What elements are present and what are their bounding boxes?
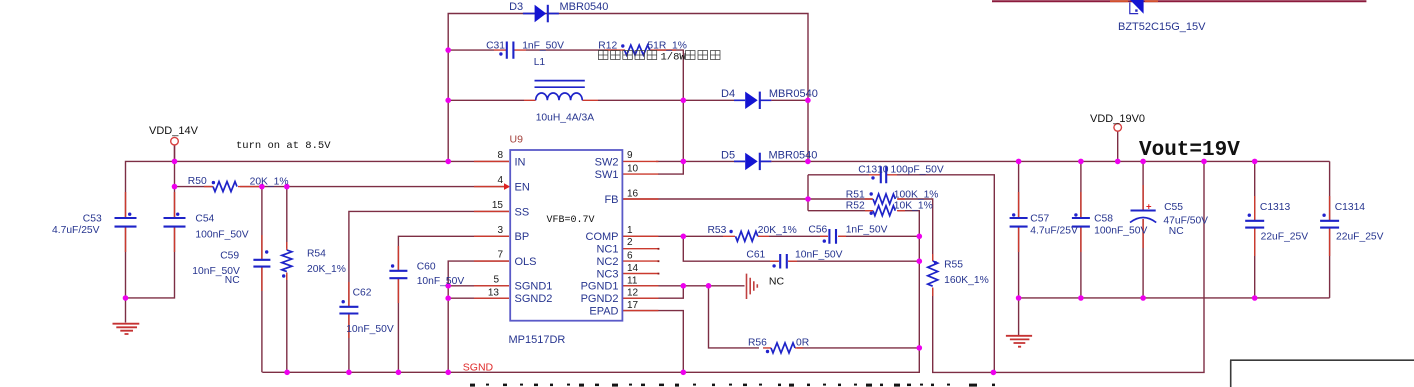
svg-text:turn on at 8.5V: turn on at 8.5V <box>236 140 331 152</box>
resistor R55 160K_1% vertical <box>928 261 938 286</box>
svg-text:NC1: NC1 <box>596 244 618 256</box>
svg-text:160K_1%: 160K_1% <box>944 275 989 286</box>
wire EN row R50 to IC <box>175 186 213 188</box>
svg-text:R56: R56 <box>748 337 767 348</box>
wire C58 vertical <box>1080 161 1082 298</box>
svg-text:U9: U9 <box>510 134 524 146</box>
svg-text:SW1: SW1 <box>595 169 619 181</box>
pin stubs D4 D5 D3 <box>734 100 772 161</box>
wire R56 right link <box>797 347 919 349</box>
svg-text:NC3: NC3 <box>596 268 618 280</box>
pin stubs C56 <box>820 235 846 237</box>
svg-text:16: 16 <box>627 189 639 200</box>
capacitor C1314 plates <box>1320 221 1339 228</box>
svg-text:20K_1%: 20K_1% <box>758 225 797 236</box>
svg-text:NC: NC <box>769 275 785 287</box>
pin stubs IC right <box>623 161 658 310</box>
resistor R53 20K_1% <box>736 231 758 241</box>
capacitor C55 electrolytic top plate <box>1131 209 1156 211</box>
capacitor C61 plates vertical <box>780 254 787 269</box>
wire C55 vertical <box>1142 161 1144 298</box>
annotation CJK suggest resistor above 1/8W <box>598 51 656 60</box>
pin stubs R50 <box>204 186 261 188</box>
svg-text:OLS: OLS <box>515 256 537 268</box>
svg-text:MBR0540: MBR0540 <box>560 1 609 13</box>
wire PGND to R56 vertical <box>709 286 760 348</box>
svg-text:SGND1: SGND1 <box>515 281 553 293</box>
resistor R56 0R <box>771 343 795 353</box>
svg-text:SS: SS <box>515 206 530 218</box>
svg-text:C56: C56 <box>808 224 827 235</box>
svg-text:PGND1: PGND1 <box>581 281 619 293</box>
wire top right crimson line <box>992 0 1366 2</box>
wire L1 row <box>448 99 524 101</box>
svg-text:C62: C62 <box>353 287 372 298</box>
wire VDD_14V stem <box>174 145 176 161</box>
svg-text:1: 1 <box>627 225 633 236</box>
svg-text:3: 3 <box>497 225 503 236</box>
labels: diodes top <box>509 1 1206 162</box>
svg-text:MBR0540: MBR0540 <box>769 88 818 100</box>
svg-text:14: 14 <box>627 263 639 274</box>
svg-text:15: 15 <box>492 200 504 211</box>
svg-text:10nF_50V: 10nF_50V <box>346 324 394 335</box>
svg-text:7: 7 <box>497 250 503 261</box>
svg-text:D5: D5 <box>721 150 735 162</box>
capacitor C1313 plates <box>1245 221 1264 228</box>
wire OLS down to SGND pins vertical <box>448 261 509 372</box>
svg-text:R52: R52 <box>846 201 865 212</box>
svg-text:10: 10 <box>627 164 639 175</box>
wire C57 vertical <box>1018 161 1020 335</box>
svg-text:NC: NC <box>225 275 240 286</box>
svg-text:EPAD: EPAD <box>589 306 618 318</box>
svg-text:R51: R51 <box>846 190 865 201</box>
capacitor C56 plates vertical <box>829 229 836 244</box>
svg-text:C1310: C1310 <box>858 164 889 175</box>
svg-text:SGND2: SGND2 <box>515 293 553 305</box>
svg-text:EN: EN <box>515 182 530 194</box>
svg-text:R12: R12 <box>598 40 617 51</box>
wire FB row to divider <box>623 198 808 200</box>
svg-text:10K_1%: 10K_1% <box>894 201 933 212</box>
capacitor C53 plates <box>115 218 137 227</box>
capacitor C1310 plates vertical <box>881 166 886 183</box>
svg-text:C60: C60 <box>417 262 436 273</box>
wire top D3 net with left vertical and right vertical to Vout <box>448 14 808 162</box>
diode D4 MBR0540 <box>734 92 772 109</box>
inductor L1 core lines <box>535 81 585 88</box>
svg-text:20K_1%: 20K_1% <box>250 176 289 187</box>
pin stubs C60 <box>397 246 399 303</box>
wire C1314 vertical right edge <box>1329 161 1331 298</box>
diode D3 MBR0540 <box>523 5 559 23</box>
capacitor C59 plates <box>253 260 270 267</box>
svg-text:SW2: SW2 <box>595 156 619 168</box>
pin stubs R51 R52 <box>865 199 905 211</box>
capacitor C62 plates <box>339 307 358 314</box>
svg-text:10uH_4A/3A: 10uH_4A/3A <box>536 113 595 124</box>
wire PGND1 row to NC <box>623 285 745 287</box>
svg-text:1nF_50V: 1nF_50V <box>522 40 564 51</box>
svg-text:C53: C53 <box>83 214 102 225</box>
wire SS rail and C62 vertical <box>349 211 509 372</box>
wire SGND2 stub link <box>448 297 509 299</box>
svg-text:C61: C61 <box>746 249 765 260</box>
bottom cut-off bold CJK text row <box>470 384 995 387</box>
capacitor C55 electrolytic bottom arc <box>1130 218 1156 223</box>
svg-text:R55: R55 <box>944 259 963 270</box>
resistor R54 20K_1% vertical <box>282 250 292 272</box>
svg-text:VDD_14V: VDD_14V <box>149 125 199 137</box>
svg-text:22uF_25V: 22uF_25V <box>1261 231 1309 242</box>
wire R52 row down to C56 node <box>808 211 919 237</box>
IC U9 MP1517DR body <box>510 150 622 321</box>
IC pin numbers right <box>627 150 639 311</box>
svg-text:PGND2: PGND2 <box>581 293 619 305</box>
wire R51 row to R55 <box>808 199 933 261</box>
svg-text:R50: R50 <box>188 176 207 187</box>
svg-text:VFB=0.7V: VFB=0.7V <box>547 215 595 226</box>
svg-text:8: 8 <box>497 150 503 161</box>
wire D5/SW2 row <box>656 160 734 162</box>
pin stubs L1 <box>524 99 598 101</box>
pin-1 marker dots blue <box>128 44 1326 353</box>
capacitor C31 plates vertical <box>507 42 514 59</box>
wire VDD_19V0 stem <box>1117 131 1119 161</box>
svg-text:22uF_25V: 22uF_25V <box>1336 231 1384 242</box>
pin stubs C59 <box>261 235 263 291</box>
svg-text:4: 4 <box>497 175 503 186</box>
pin end markers NC pins <box>658 248 660 250</box>
pin stubs C53 C54 <box>126 192 175 252</box>
IC pin names left <box>515 156 553 305</box>
pin stubs IC left <box>474 161 509 298</box>
pin stubs right caps <box>1019 185 1330 256</box>
wire Vout bus <box>808 160 1330 162</box>
svg-text:100nF_50V: 100nF_50V <box>195 229 248 240</box>
power port VDD_14V <box>171 137 179 145</box>
power port VDD_19V0 <box>1114 124 1122 132</box>
wire C1310 row <box>808 175 994 373</box>
wire COMP row <box>623 235 683 237</box>
svg-text:D3: D3 <box>509 1 523 13</box>
wire C54 vertical with bottom jog to ground node <box>126 145 175 298</box>
svg-text:COMP: COMP <box>586 231 619 243</box>
svg-text:2: 2 <box>627 237 633 248</box>
svg-text:51R_1%: 51R_1% <box>647 40 687 51</box>
svg-text:MBR0540: MBR0540 <box>769 150 818 162</box>
svg-text:C31: C31 <box>486 40 505 51</box>
svg-text:0R: 0R <box>796 337 809 348</box>
svg-text:C57: C57 <box>1030 214 1049 225</box>
pin EN arrow <box>504 183 510 190</box>
svg-text:D4: D4 <box>721 88 735 100</box>
svg-text:C55: C55 <box>1164 202 1183 213</box>
svg-text:12: 12 <box>627 288 639 299</box>
svg-text:100pF_50V: 100pF_50V <box>891 164 944 175</box>
svg-text:MP1517DR: MP1517DR <box>509 334 566 346</box>
svg-text:10nF_50V: 10nF_50V <box>417 276 465 287</box>
svg-text:BP: BP <box>515 231 530 243</box>
wire PGND2 corner <box>623 286 683 298</box>
svg-text:IN: IN <box>515 156 526 168</box>
svg-text:1nF_50V: 1nF_50V <box>846 224 888 235</box>
resistor R12 51R_1% <box>625 45 650 55</box>
wire R53/C56 row <box>683 235 919 237</box>
svg-text:C59: C59 <box>220 251 239 262</box>
svg-text:BZT52C15G_15V: BZT52C15G_15V <box>1118 21 1206 33</box>
svg-text:9: 9 <box>627 150 633 161</box>
pin stubs C1310 <box>869 174 897 176</box>
wire C1313 vertical <box>1254 161 1256 298</box>
wire R54 vertical <box>286 187 288 373</box>
zener diode BZT52C15G_15V cut at top <box>1110 0 1158 14</box>
IC pin numbers left <box>488 150 504 299</box>
svg-text:VDD_19V0: VDD_19V0 <box>1090 113 1145 125</box>
frame black box bottom right <box>1230 360 1414 387</box>
capacitor C60 plates <box>389 271 407 278</box>
ground symbol right cap bank <box>1006 336 1032 347</box>
wire feedback box left vertical <box>807 175 809 211</box>
wire C31/R12 snubber row <box>448 49 494 51</box>
svg-text:C1314: C1314 <box>1335 202 1366 213</box>
pin stubs R54 <box>286 242 288 280</box>
svg-text:11: 11 <box>627 275 638 286</box>
svg-text:47uF/50V: 47uF/50V <box>1163 216 1208 227</box>
svg-text:10nF_50V: 10nF_50V <box>795 249 843 260</box>
wire BP rail and C60 vertical <box>398 236 509 372</box>
pin stubs C31 <box>494 49 526 51</box>
pin stubs R55 <box>932 254 934 296</box>
svg-text:4.7uF/25V: 4.7uF/25V <box>1030 225 1078 236</box>
svg-text:100K_1%: 100K_1% <box>894 190 939 201</box>
pin stubs R12 <box>605 49 676 51</box>
svg-text:FB: FB <box>604 194 618 206</box>
svg-text:SGND: SGND <box>463 361 494 373</box>
wire C59 vertical <box>261 187 263 373</box>
node junction dots <box>123 47 1258 375</box>
svg-text:5: 5 <box>493 274 499 285</box>
wire SGND1 stub link <box>448 285 509 287</box>
svg-text:L1: L1 <box>534 57 546 68</box>
pin stubs C61 <box>770 260 797 262</box>
svg-text:+: + <box>1146 202 1152 213</box>
svg-text:17: 17 <box>627 300 639 311</box>
inductor L1 coil <box>536 93 583 100</box>
pin stubs C62 <box>348 282 350 338</box>
capacitor C58 plates <box>1072 218 1090 227</box>
svg-text:6: 6 <box>627 251 633 262</box>
ground symbol left <box>113 324 140 334</box>
resistor R51 100K_1% <box>873 194 895 204</box>
svg-text:C58: C58 <box>1094 214 1113 225</box>
capacitor C57 plates <box>1010 218 1028 227</box>
wire IN rail from C53 to IC <box>126 161 510 322</box>
resistor R50 20K_1% <box>213 182 237 192</box>
wire right cap bank bottom bus <box>1019 297 1330 299</box>
wire C61 row <box>683 236 919 261</box>
svg-text:4.7uF/25V: 4.7uF/25V <box>52 225 100 236</box>
svg-text:C54: C54 <box>195 214 214 225</box>
svg-text:C1313: C1313 <box>1260 202 1291 213</box>
pin stubs R53 <box>723 235 769 237</box>
svg-text:R53: R53 <box>708 225 727 236</box>
svg-text:13: 13 <box>488 288 500 299</box>
svg-text:NC: NC <box>1169 226 1184 237</box>
svg-text:1/8W: 1/8W <box>661 51 687 63</box>
svg-text:NC2: NC2 <box>596 256 618 268</box>
diode D5 MBR0540 <box>734 153 772 170</box>
svg-text:R54: R54 <box>307 248 326 259</box>
capacitor C54 plates <box>164 218 186 227</box>
IC pin names right <box>581 156 619 317</box>
resistor R52 10K_1% <box>873 206 895 216</box>
wire SGND bus <box>262 236 919 372</box>
svg-text:100nF_50V: 100nF_50V <box>1094 225 1147 236</box>
wire R55 bottom to Vout return <box>933 161 1204 372</box>
wire EPAD down to SGND bus <box>623 311 683 373</box>
svg-text:20K_1%: 20K_1% <box>307 264 346 275</box>
svg-text:Vout=19V: Vout=19V <box>1139 139 1240 162</box>
pin stubs R56 <box>763 347 803 349</box>
no-connect ground NC at PGND1 <box>747 274 758 299</box>
